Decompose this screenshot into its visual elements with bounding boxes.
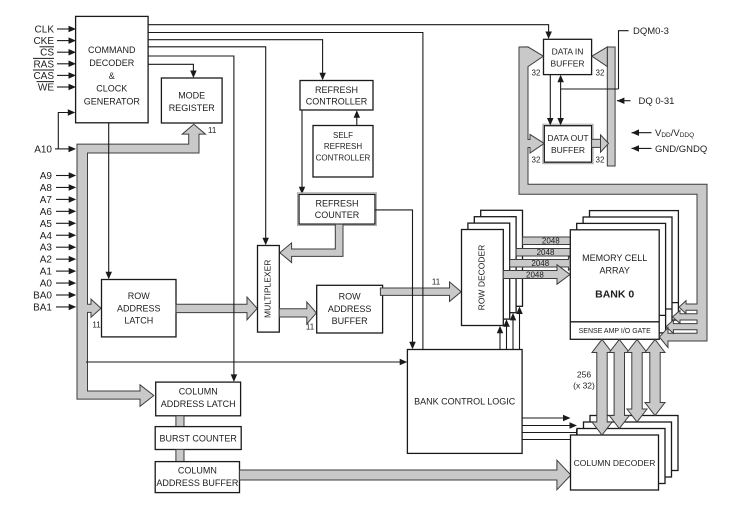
wire DQM to both buffers bbox=[560, 81, 562, 120]
block stack: MEMORY CELL ARRAY (banks 3,2,1) bbox=[590, 211, 679, 321]
bus refresh-counter->multiplexer bbox=[280, 224, 343, 262]
block: REFRESH CONTROLLER bbox=[300, 81, 373, 111]
wire A10 branch to decoder bbox=[58, 113, 68, 149]
block: SELF REFRESH CONTROLLER bbox=[313, 126, 373, 178]
svg-text:GND/GNDQ: GND/GNDQ bbox=[655, 144, 707, 155]
svg-text:(x 32): (x 32) bbox=[573, 381, 595, 391]
svg-text:COMMAND: COMMAND bbox=[88, 45, 136, 55]
svg-text:A4: A4 bbox=[40, 231, 53, 242]
block: MODE REGISTER bbox=[161, 78, 222, 123]
arrow VDD/VDDQ bbox=[632, 132, 652, 134]
svg-text:COLUMN: COLUMN bbox=[179, 387, 218, 397]
svg-text:11: 11 bbox=[208, 126, 217, 135]
bracket DQM0-3 bbox=[619, 31, 629, 89]
svg-text:2048: 2048 bbox=[526, 270, 544, 279]
svg-text:SENSE AMP I/O GATE: SENSE AMP I/O GATE bbox=[579, 328, 651, 335]
bus internal data: buffers to memory banks (wrap with comb) bbox=[519, 47, 707, 348]
svg-text:BA1: BA1 bbox=[33, 302, 52, 313]
wire bank-control->column-decoder bank2 bbox=[522, 425, 571, 427]
bus column-address-latch->burst-counter bbox=[176, 416, 184, 427]
svg-text:11: 11 bbox=[432, 277, 441, 286]
svg-text:ADDRESS LATCH: ADDRESS LATCH bbox=[161, 399, 236, 409]
svg-text:COLUMN: COLUMN bbox=[178, 466, 217, 476]
block: MULTIPLEXER bbox=[258, 246, 280, 333]
svg-text:32: 32 bbox=[596, 156, 605, 165]
block: DATA OUT BUFFER bbox=[543, 124, 593, 164]
bus sense-amp<->column-decoder bank1 bbox=[609, 340, 629, 429]
svg-text:A10: A10 bbox=[34, 144, 52, 155]
wire bank-control->row-decoder bank0 bbox=[499, 332, 501, 350]
svg-text:32: 32 bbox=[532, 69, 541, 78]
svg-text:ROW DECODER: ROW DECODER bbox=[476, 245, 486, 311]
svg-text:2048: 2048 bbox=[531, 259, 549, 268]
svg-text:COLUMN DECODER: COLUMN DECODER bbox=[574, 458, 656, 468]
svg-text:MODE: MODE bbox=[178, 91, 205, 101]
wire DQM horizontal bbox=[561, 88, 619, 90]
wire data-in->data-out internal bbox=[549, 75, 551, 120]
svg-text:A1: A1 bbox=[40, 267, 53, 278]
bus sense-amp<->column-decoder bank3 bbox=[645, 340, 665, 416]
svg-text:32: 32 bbox=[532, 156, 541, 165]
block: MEMORY CELL ARRAY BANK 0 bbox=[570, 230, 659, 339]
bus 2048 row-decoder->array bank3 bbox=[523, 234, 590, 248]
svg-text:A3: A3 bbox=[40, 243, 53, 254]
bus 2048 row-decoder->array bank2 bbox=[516, 245, 583, 259]
svg-text:DATA OUT: DATA OUT bbox=[547, 133, 588, 143]
bus multiplexer->row-address-buffer bbox=[279, 302, 316, 324]
wire bank-control->column-decoder bank1 bbox=[522, 432, 577, 434]
svg-text:WE: WE bbox=[38, 83, 54, 94]
wire C decoder->refresh-controller bbox=[148, 40, 323, 74]
bus address (A0-A10,BA0,BA1) with branches bbox=[77, 124, 206, 406]
wire bank-control->column-decoder bank3 bbox=[522, 417, 564, 419]
svg-text:ADDRESS BUFFER: ADDRESS BUFFER bbox=[156, 478, 239, 488]
svg-text:COUNTER: COUNTER bbox=[315, 210, 360, 220]
bus 2048 row-decoder->array bank0 bbox=[503, 265, 570, 284]
block stack: ROW DECODER (banks 3,2,1) bbox=[481, 210, 523, 306]
svg-text:ROW: ROW bbox=[128, 291, 151, 301]
svg-text:BANK 0: BANK 0 bbox=[595, 288, 634, 300]
svg-text:BA0: BA0 bbox=[33, 291, 52, 302]
svg-text:11: 11 bbox=[306, 323, 315, 332]
svg-text:CLOCK: CLOCK bbox=[96, 84, 127, 94]
svg-text:REFRESH: REFRESH bbox=[324, 142, 362, 151]
block: COLUMN ADDRESS BUFFER bbox=[155, 462, 239, 493]
bus data-out-buffer output to DQ bus (32) bbox=[592, 139, 601, 147]
svg-text:MEMORY CELL: MEMORY CELL bbox=[582, 253, 647, 263]
wire D decoder->multiplexer bbox=[148, 47, 266, 240]
svg-text:CLK: CLK bbox=[35, 25, 55, 36]
block: COLUMN DECODER bank0 bbox=[571, 435, 659, 490]
wire A decoder->data-in-buffer bbox=[148, 25, 548, 33]
block: REFRESH COUNTER bbox=[298, 193, 377, 226]
block stack: COLUMN DECODER (banks 3,2,1) bbox=[590, 416, 678, 471]
svg-text:A6: A6 bbox=[40, 207, 53, 218]
block: BURST COUNTER bbox=[155, 427, 241, 450]
wire F decoder->mode-register bbox=[148, 64, 193, 72]
bus row-address-buffer->row-decoder (11) bbox=[380, 282, 461, 302]
bus 2048 row-decoder->array bank1 bbox=[510, 256, 577, 270]
svg-text:A7: A7 bbox=[40, 195, 53, 206]
svg-text:CAS: CAS bbox=[33, 71, 54, 82]
svg-text:A0: A0 bbox=[40, 279, 53, 290]
arrow DQ 0-31 bbox=[617, 100, 631, 102]
block: ROW ADDRESS BUFFER bbox=[317, 285, 383, 333]
block: COLUMN ADDRESS LATCH bbox=[156, 382, 241, 416]
svg-text:CONTROLLER: CONTROLLER bbox=[306, 96, 368, 106]
bus sense-amp<->column-decoder bank2 bbox=[627, 340, 647, 423]
block: BANK CONTROL LOGIC bbox=[407, 350, 522, 454]
svg-text:DECODER: DECODER bbox=[89, 58, 135, 68]
svg-text:BUFFER: BUFFER bbox=[551, 145, 585, 155]
wire bank-control->column-decoder bank0 bbox=[522, 439, 584, 441]
svg-text:REFRESH: REFRESH bbox=[315, 198, 358, 208]
svg-text:REFRESH: REFRESH bbox=[315, 85, 358, 95]
svg-text:2048: 2048 bbox=[542, 237, 560, 246]
strip: SENSE AMP I/O GATE bbox=[570, 321, 659, 323]
svg-text:MULTIPLEXER: MULTIPLEXER bbox=[263, 260, 273, 318]
svg-text:CKE: CKE bbox=[33, 36, 54, 47]
bus sense-amp<->column-decoder bank0 bbox=[592, 340, 612, 436]
block: ROW DECODER bank0 bbox=[462, 230, 504, 326]
svg-text:A9: A9 bbox=[40, 171, 53, 182]
svg-text:11: 11 bbox=[92, 321, 101, 330]
svg-text:CONTROLLER: CONTROLLER bbox=[316, 154, 371, 163]
svg-text:BURST COUNTER: BURST COUNTER bbox=[160, 433, 238, 443]
svg-text:DQ 0-31: DQ 0-31 bbox=[639, 96, 675, 107]
wire bank-control->row-decoder bank3 bbox=[519, 313, 521, 350]
wire address-bus->bank-control-logic bbox=[86, 361, 401, 363]
wire refresh-controller->refresh-counter bbox=[301, 110, 303, 189]
bus column-address-buffer->column-decoder bbox=[240, 460, 571, 490]
wire bank-control->row-decoder bank1 bbox=[506, 325, 508, 349]
svg-text:256: 256 bbox=[577, 370, 591, 380]
svg-text:32: 32 bbox=[596, 69, 605, 78]
svg-text:A2: A2 bbox=[40, 255, 53, 266]
svg-text:LATCH: LATCH bbox=[124, 316, 153, 326]
block: DATA IN BUFFER bbox=[544, 39, 592, 74]
wire bank-control->row-decoder bank2 bbox=[512, 319, 514, 350]
svg-text:2048: 2048 bbox=[537, 248, 555, 257]
bus DQ right vertical bbox=[607, 47, 615, 166]
svg-text:REGISTER: REGISTER bbox=[169, 103, 216, 113]
wire self-refresh->refresh-controller bbox=[356, 116, 358, 126]
svg-text:ADDRESS: ADDRESS bbox=[328, 304, 372, 314]
svg-text:ADDRESS: ADDRESS bbox=[117, 303, 161, 313]
svg-text:CS: CS bbox=[40, 48, 54, 59]
svg-text:BANK CONTROL LOGIC: BANK CONTROL LOGIC bbox=[414, 397, 516, 407]
svg-text:SELF: SELF bbox=[333, 131, 353, 140]
svg-text:DATA IN: DATA IN bbox=[552, 46, 584, 56]
svg-text:GENERATOR: GENERATOR bbox=[84, 96, 141, 106]
svg-text:A8: A8 bbox=[40, 183, 53, 194]
bus burst-counter->column-address-buffer bbox=[176, 450, 184, 462]
svg-text:&: & bbox=[109, 71, 115, 81]
svg-text:RAS: RAS bbox=[33, 59, 54, 70]
arrow GND/GNDQ bbox=[632, 147, 652, 149]
block: COMMAND DECODER & CLOCK GENERATOR bbox=[76, 16, 149, 122]
svg-text:BUFFER: BUFFER bbox=[551, 58, 585, 68]
svg-text:ROW: ROW bbox=[339, 292, 362, 302]
bus arrow into data-in-buffer right (32) bbox=[592, 47, 608, 67]
bus row-address-latch->multiplexer bbox=[176, 297, 257, 320]
svg-text:ARRAY: ARRAY bbox=[600, 266, 630, 276]
wire decoder->row-address-latch bbox=[108, 123, 110, 274]
svg-text:DQM0-3: DQM0-3 bbox=[633, 26, 669, 37]
svg-text:BUFFER: BUFFER bbox=[332, 316, 369, 326]
wire refresh-counter->bank-control bbox=[375, 210, 413, 344]
svg-text:A5: A5 bbox=[40, 219, 53, 230]
wire E decoder->column-address-latch bbox=[148, 56, 234, 376]
block: ROW ADDRESS LATCH bbox=[102, 280, 177, 337]
wire B decoder->bank-control bbox=[148, 33, 423, 350]
